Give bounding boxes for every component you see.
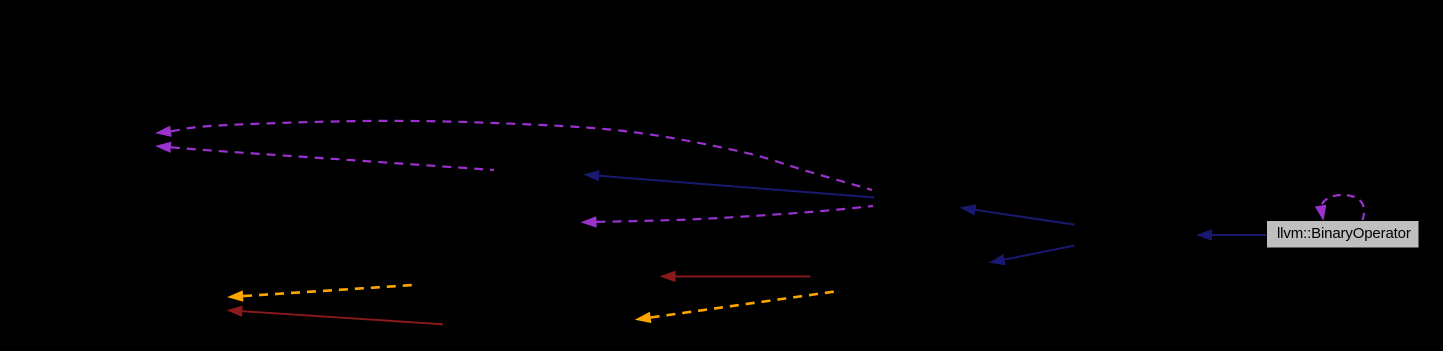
svg-text:llvm::BinaryOperator: llvm::BinaryOperator [1277,225,1411,242]
edge H: solid dark-red private inheritance, horizontal at y=276 [660,271,811,282]
edge B: dashed violet line from node at (494,170) to far-left node, arrowhead left [155,142,494,170]
edge A: dashed violet arc from node at (872,190) to far-left node, arrowhead left [155,121,872,190]
edge E: solid blue inheritance from node at (1074,225) to node at (960,208) [960,204,1075,224]
edge I: dashed orange template relation from (838,291) to (635,320) [635,291,839,323]
edge K: dashed orange template relation from (418,285) to (227,297) [227,285,418,302]
edge G: solid blue inheritance from llvm::BinaryOperator box to node at (1196,235) [1196,229,1267,240]
edge L: dashed violet self-loop above llvm::BinaryOperator box [1315,195,1364,221]
edge C: dashed violet line from node at (873,206) to middle node, arrowhead left [581,206,874,228]
edge F: solid blue inheritance from node at (1074,246) to node at (989,263) [989,246,1075,266]
edge D: solid blue inheritance from node at (874,197) to middle node [583,170,874,197]
node llvm::BinaryOperator (highlighted gray box) [1267,221,1420,249]
edge J: solid dark-red private inheritance from (443,324) to (226,310) [226,306,443,325]
